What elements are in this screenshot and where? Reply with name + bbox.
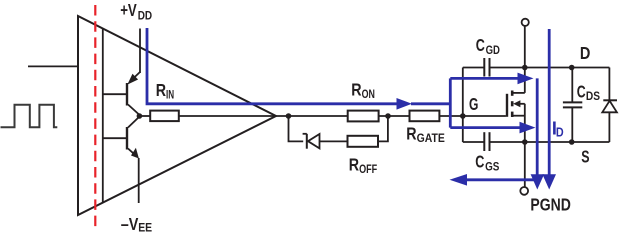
svg-text:C: C bbox=[577, 81, 586, 101]
svg-text:R: R bbox=[351, 79, 361, 99]
svg-text:OFF: OFF bbox=[359, 162, 377, 176]
svg-text:C: C bbox=[476, 35, 485, 55]
svg-text:EE: EE bbox=[138, 220, 152, 234]
svg-text:S: S bbox=[581, 147, 589, 167]
svg-text:G: G bbox=[469, 94, 478, 114]
svg-text:D: D bbox=[556, 125, 564, 139]
svg-text:GATE: GATE bbox=[417, 131, 445, 145]
svg-text:R: R bbox=[349, 154, 359, 174]
svg-text:DD: DD bbox=[138, 9, 153, 23]
svg-text:PGND: PGND bbox=[530, 194, 571, 214]
svg-text:GD: GD bbox=[486, 43, 500, 57]
svg-text:+V: +V bbox=[120, 0, 137, 20]
svg-text:GS: GS bbox=[485, 159, 499, 173]
svg-text:ON: ON bbox=[362, 87, 375, 101]
svg-text:DS: DS bbox=[586, 89, 600, 103]
svg-text:C: C bbox=[475, 151, 484, 171]
svg-text:R: R bbox=[406, 123, 416, 143]
svg-text:–V: –V bbox=[121, 214, 139, 234]
svg-text:IN: IN bbox=[166, 87, 174, 101]
svg-text:R: R bbox=[156, 80, 166, 100]
svg-text:D: D bbox=[580, 43, 591, 63]
